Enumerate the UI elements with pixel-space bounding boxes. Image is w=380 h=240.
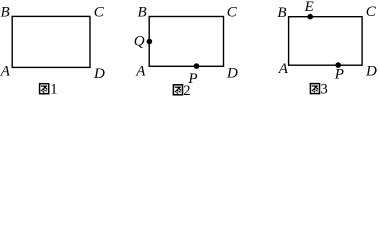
svg-text:E: E (304, 0, 314, 15)
svg-text:C: C (94, 5, 105, 21)
svg-text:B: B (138, 5, 147, 21)
svg-text:D: D (93, 66, 105, 82)
svg-text:A: A (278, 61, 289, 77)
svg-text:A: A (135, 64, 146, 80)
svg-text:3: 3 (321, 81, 328, 97)
svg-text:D: D (365, 64, 377, 80)
svg-text:D: D (226, 66, 238, 82)
svg-text:B: B (1, 5, 10, 21)
svg-text:Q: Q (134, 34, 145, 50)
svg-text:C: C (227, 5, 238, 21)
svg-text:C: C (366, 4, 377, 20)
svg-text:B: B (277, 5, 286, 21)
svg-text:A: A (0, 64, 11, 80)
svg-text:1: 1 (50, 82, 57, 98)
svg-text:P: P (334, 67, 344, 83)
svg-text:2: 2 (183, 83, 190, 98)
